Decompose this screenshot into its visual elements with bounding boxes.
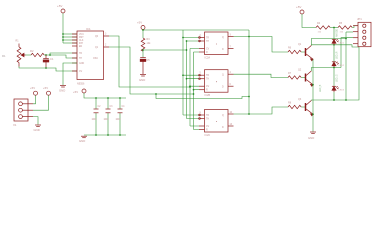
supply +5V symbol P2 above cap bank xyxy=(73,89,86,94)
wire X1 pin1 to +5V xyxy=(33,95,36,104)
gate IC2B body xyxy=(200,70,232,98)
svg-text:ANODE: ANODE xyxy=(336,28,339,37)
wire R1 wiper to R2 xyxy=(26,54,32,56)
svg-text:R7: R7 xyxy=(288,72,292,75)
wire IC1 pin Q1 to braid (x130 drop, y94 run) xyxy=(109,47,194,94)
svg-text:Q: Q xyxy=(222,37,224,39)
wire R7 to Q2 base xyxy=(301,77,305,79)
wire LED column segment 1 xyxy=(333,28,335,40)
svg-text:100n: 100n xyxy=(92,119,98,121)
svg-text:IC1: IC1 xyxy=(86,27,91,31)
junction dots on VCC bus xyxy=(62,33,64,41)
ground GND2 at cap bank xyxy=(81,136,87,138)
wire IC1 pin Q0 to braid (x119 drop, y87 run) xyxy=(109,36,190,87)
resistor R7 xyxy=(288,76,301,79)
wire input bus vertical x186.5 (A/B/C in2, R3 feed) xyxy=(187,41,200,119)
resistor R3 (vertical) xyxy=(141,38,145,51)
svg-text:R8: R8 xyxy=(288,102,292,105)
wire VCC tap y34 xyxy=(63,33,77,35)
svg-text:C3: C3 xyxy=(110,106,114,108)
svg-text:IC2A: IC2A xyxy=(205,57,211,60)
ground GND4 xyxy=(140,75,146,77)
wire VCC tap y40 xyxy=(63,39,77,41)
junction LED column top xyxy=(333,27,335,29)
junction dots cap bank xyxy=(95,97,121,136)
wire H2 line (44.8) to x352 down to x359 xyxy=(311,45,359,47)
junction node C1 top xyxy=(45,54,47,56)
supply +5V symbol P6 top right xyxy=(296,5,304,14)
wire R4 to R5 node xyxy=(330,27,338,29)
svg-text:TH: TH xyxy=(79,58,82,60)
svg-text:R1: R1 xyxy=(2,54,6,58)
svg-text:D: D xyxy=(222,49,224,51)
svg-text:150: 150 xyxy=(340,32,344,34)
svg-text:X1: X1 xyxy=(13,123,17,127)
svg-text:Q3: Q3 xyxy=(298,98,302,101)
svg-text:C5: C5 xyxy=(147,59,151,62)
LED3 xyxy=(332,86,339,92)
capacitor C4 xyxy=(116,98,126,135)
LED1 xyxy=(332,39,339,45)
svg-text:R4: R4 xyxy=(317,22,321,25)
svg-text:CV: CV xyxy=(206,49,210,51)
svg-text:EN: EN xyxy=(79,46,83,48)
svg-text:CV: CV xyxy=(79,71,83,73)
svg-text:GND: GND xyxy=(34,128,40,132)
svg-text:+5V: +5V xyxy=(73,90,78,94)
wire pot bottom / C1 bottom to IC1 pin xyxy=(19,67,77,72)
svg-text:TR: TR xyxy=(79,53,82,55)
svg-text:TH: TH xyxy=(206,79,209,81)
svg-text:IC2B: IC2B xyxy=(205,94,211,97)
svg-text:R1: R1 xyxy=(16,40,20,43)
svg-text:LED_B: LED_B xyxy=(320,84,322,92)
svg-text:Q2: Q2 xyxy=(298,69,302,72)
junction supply node xyxy=(142,29,144,31)
svg-text:TR: TR xyxy=(206,75,209,77)
svg-text:2: 2 xyxy=(105,45,107,47)
wire R3 to C5 xyxy=(142,49,144,57)
wire Q1 collector H1 line to x346 xyxy=(311,39,346,46)
wire VCC tap y43 xyxy=(63,42,77,44)
supply +5V symbol P5 middle xyxy=(137,21,145,30)
wire Q2 collector to connector pin3 xyxy=(311,38,353,71)
svg-text:GND: GND xyxy=(139,78,145,82)
svg-text:+5V: +5V xyxy=(43,86,48,90)
svg-text:+5V: +5V xyxy=(57,4,62,8)
pin circles IC2B xyxy=(199,74,201,76)
svg-text:3: 3 xyxy=(105,34,107,36)
wire cap bank bottom rail xyxy=(84,134,126,136)
svg-text:LED2: LED2 xyxy=(339,65,345,67)
svg-text:CV: CV xyxy=(206,86,210,88)
svg-text:TH: TH xyxy=(206,119,209,121)
wire cap bank top rail xyxy=(84,93,126,98)
svg-text:R: R xyxy=(206,52,208,54)
wire R5 to connector pin1 xyxy=(352,26,358,28)
svg-text:LED_G: LED_G xyxy=(337,74,339,82)
pin circles IC2C xyxy=(199,114,201,116)
wire VCC tap y37 xyxy=(63,36,77,38)
svg-text:+5V: +5V xyxy=(296,5,301,9)
wire R2 to IC1 pin xyxy=(44,55,77,58)
svg-text:R: R xyxy=(206,130,208,132)
transistor Q3 xyxy=(306,100,314,115)
resistor R4 xyxy=(316,26,330,29)
wire LED column segment 2 xyxy=(333,45,335,62)
wire gate C out2 loop to pin2 net xyxy=(155,93,157,95)
transistor Q2 xyxy=(306,71,314,86)
svg-text:VCC: VCC xyxy=(79,34,84,36)
svg-text:INH: INH xyxy=(79,43,83,45)
capacitor C1 (polarized) xyxy=(43,55,49,68)
svg-text:CV: CV xyxy=(206,126,210,128)
svg-text:Q1: Q1 xyxy=(298,43,302,46)
svg-text:R2: R2 xyxy=(30,49,34,53)
svg-text:IC2C: IC2C xyxy=(205,134,211,137)
svg-text:100n: 100n xyxy=(104,119,110,121)
svg-text:C4: C4 xyxy=(122,106,126,108)
svg-text:C2: C2 xyxy=(98,106,102,108)
gate IC2B pin stubs xyxy=(199,74,234,90)
svg-text:LED1: LED1 xyxy=(339,43,345,45)
transistor Q1 xyxy=(306,45,314,60)
capacitor C2 xyxy=(92,98,102,135)
wire X1 pin2 to supply xyxy=(33,95,49,110)
IC1 left pin stubs xyxy=(72,34,77,71)
wire Q3 collector line to connector pin4 xyxy=(311,47,359,100)
wire VCC stem to IC1 pin bus xyxy=(62,13,64,43)
wire X1 pin3 to ground xyxy=(33,117,38,125)
junction dots emitter rail xyxy=(312,84,314,115)
svg-text:+5V: +5V xyxy=(30,86,35,90)
svg-text:GND: GND xyxy=(79,63,84,65)
LED2 xyxy=(332,62,339,68)
svg-text:+5V: +5V xyxy=(137,21,142,25)
supply symbol P3 xyxy=(30,86,38,95)
svg-text:100n: 100n xyxy=(116,119,122,121)
wire pin2 stub run xyxy=(346,31,353,33)
junction C1 bottom xyxy=(45,67,47,69)
wire IC1 gnd pin xyxy=(63,63,77,85)
svg-text:10k: 10k xyxy=(147,42,152,45)
supply symbol P4 xyxy=(43,86,51,95)
svg-text:JP1: JP1 xyxy=(357,17,362,21)
svg-text:Q1: Q1 xyxy=(95,47,99,49)
resistor R8 xyxy=(288,105,301,108)
svg-text:OSC: OSC xyxy=(93,58,98,60)
wire R8 to Q3 base xyxy=(301,106,305,108)
wire common emitter rail to ground xyxy=(312,59,314,131)
svg-text:TR: TR xyxy=(206,115,209,117)
long feedback vertical x249 xyxy=(248,30,250,114)
gate IC2A body xyxy=(200,32,232,60)
wire R6 to Q1 base xyxy=(301,51,305,53)
gate IC2C pin stubs xyxy=(199,114,234,130)
resistor R5 xyxy=(338,26,352,29)
ground GND3 xyxy=(35,125,41,127)
wire gate C out1 to R8 xyxy=(234,107,289,114)
IC1 body xyxy=(77,27,107,86)
resistor R2 xyxy=(31,53,44,56)
junction node R3/C5 xyxy=(142,49,144,51)
wire vertical x346 pin2 to Q3 line xyxy=(345,32,347,100)
svg-text:R: R xyxy=(206,90,208,92)
svg-text:D: D xyxy=(222,127,224,129)
wire gate B out1 to R7 xyxy=(234,74,289,77)
svg-text:Q0: Q0 xyxy=(95,36,99,38)
capacitor C3 xyxy=(104,98,114,135)
IC1 right pin stubs xyxy=(104,36,110,47)
potentiometer R1 xyxy=(17,44,25,67)
svg-text:TR: TR xyxy=(206,38,209,40)
wire input bus vertical x193.5 (A/B/C in4) xyxy=(194,52,200,130)
svg-text:NE556: NE556 xyxy=(77,83,85,86)
svg-text:GND: GND xyxy=(59,89,65,93)
wire R3 node to gate input bus xyxy=(143,49,187,51)
connector JP1 (4-pin) xyxy=(353,22,371,46)
svg-text:150: 150 xyxy=(318,32,322,34)
svg-text:RST: RST xyxy=(79,37,84,39)
pin circles IC2A xyxy=(199,37,201,39)
wire gate A out1 to R6 xyxy=(234,37,289,53)
wire LED column segment 3 xyxy=(333,68,335,87)
wire LED column to Q3 collector line xyxy=(333,92,335,100)
svg-text:LED_R: LED_R xyxy=(337,51,339,59)
gate IC2A pin stubs xyxy=(199,37,234,53)
gate IC2C body xyxy=(200,110,233,138)
svg-text:C1: C1 xyxy=(50,57,54,61)
resistor R6 xyxy=(288,50,301,53)
svg-text:Q: Q xyxy=(222,115,224,117)
svg-text:TH: TH xyxy=(206,41,209,43)
svg-text:Q: Q xyxy=(222,75,224,77)
svg-text:GND: GND xyxy=(308,136,314,140)
wire supply stem to R3 xyxy=(142,30,144,39)
connector X1 (3-pin) xyxy=(14,99,33,121)
wire input bus vertical x190 (A/B/C in3) xyxy=(190,49,199,127)
ground GND1 below IC1 xyxy=(60,86,66,88)
wire input bus vertical x183 (A/B/C in1) xyxy=(183,30,199,115)
svg-text:GND: GND xyxy=(79,139,85,143)
svg-text:R5: R5 xyxy=(339,22,343,25)
supply +5V symbol P1 top left xyxy=(57,4,65,13)
wire supply to R4 xyxy=(302,14,316,28)
svg-text:LED3: LED3 xyxy=(339,90,345,92)
wire +5V to gate A in1 bus xyxy=(143,29,249,31)
svg-text:R3: R3 xyxy=(147,38,151,41)
svg-text:CLK: CLK xyxy=(79,40,84,42)
svg-text:D: D xyxy=(222,87,224,89)
ground GND5 xyxy=(310,132,316,134)
svg-text:R6: R6 xyxy=(288,47,292,50)
capacitor C5 (polarized) xyxy=(140,58,146,75)
